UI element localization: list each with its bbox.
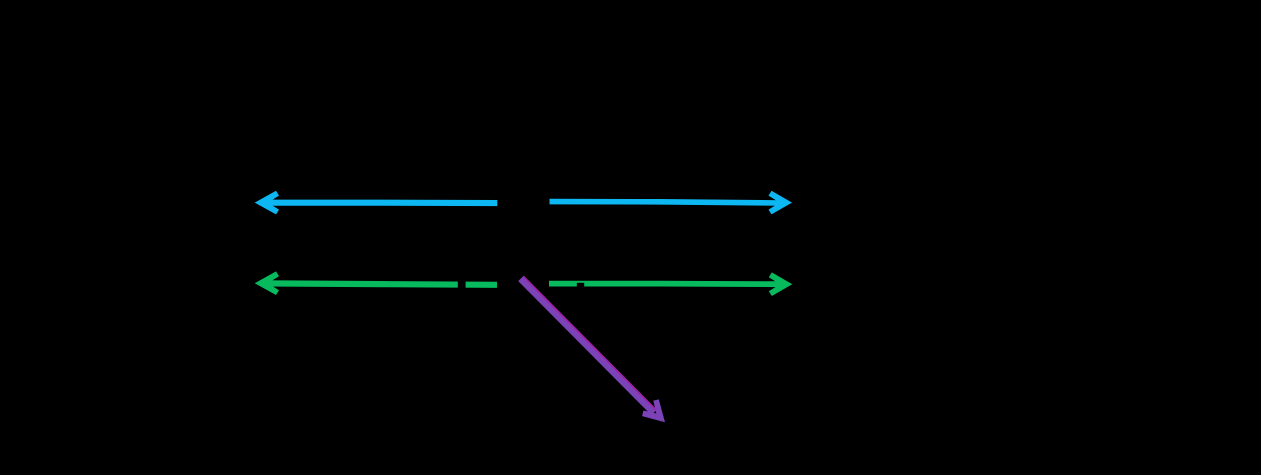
translation vector (purple arrow) (521, 276, 665, 422)
line l (green double-headed arrow) (255, 271, 793, 296)
purple shaft magenta top-right edge (523, 276, 656, 410)
wire: cyan shaft left segment (264, 200, 497, 207)
arrowhead: purple (642, 399, 665, 422)
arrowhead: green right (769, 272, 793, 296)
arrowhead: green left (255, 271, 279, 295)
label-cut notch 2 on green line (black glyph overlap) (577, 283, 584, 292)
arrowhead: cyan left (255, 191, 279, 215)
wire: cyan shaft right segment (550, 202, 784, 203)
wire: green shaft left segment (264, 283, 497, 284)
wire: green shaft right segment (549, 281, 783, 287)
label-cut notch 1 on green line (black glyph overlap) (458, 280, 466, 292)
line k (cyan double-headed arrow) (255, 191, 792, 215)
arrowhead: cyan right (769, 191, 793, 215)
wire: purple shaft (521, 278, 654, 412)
